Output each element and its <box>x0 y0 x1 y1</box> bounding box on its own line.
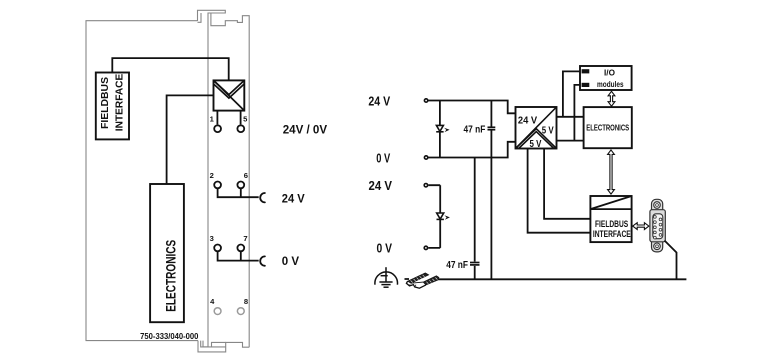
svg-text:modules: modules <box>597 80 624 89</box>
svg-text:I/O: I/O <box>604 69 616 78</box>
svg-text:ELECTRONICS: ELECTRONICS <box>162 240 178 312</box>
svg-text:47 nF: 47 nF <box>446 260 468 271</box>
svg-text:24 V: 24 V <box>368 94 390 108</box>
svg-text:24 V: 24 V <box>518 115 538 126</box>
svg-text:0 V: 0 V <box>376 151 390 165</box>
svg-text:3: 3 <box>210 234 214 243</box>
svg-text:ELECTRONICS: ELECTRONICS <box>586 124 629 133</box>
svg-text:5 V: 5 V <box>542 125 554 136</box>
svg-text:24 V: 24 V <box>369 179 393 193</box>
svg-text:2: 2 <box>210 171 214 180</box>
svg-text:FIELDBUS: FIELDBUS <box>100 77 111 129</box>
svg-text:6: 6 <box>244 171 248 180</box>
svg-text:750-333/040-000: 750-333/040-000 <box>140 332 199 341</box>
svg-text:0 V: 0 V <box>377 242 393 256</box>
svg-text:24 V: 24 V <box>282 191 306 205</box>
svg-text:INTERFACE: INTERFACE <box>593 229 631 240</box>
svg-text:24V / 0V: 24V / 0V <box>283 123 328 137</box>
svg-text:47 nF: 47 nF <box>464 124 486 135</box>
svg-text:0 V: 0 V <box>282 254 300 268</box>
svg-text:5 V: 5 V <box>530 139 542 150</box>
svg-text:7: 7 <box>243 234 247 243</box>
svg-text:8: 8 <box>244 297 248 306</box>
svg-text:INTERFACE: INTERFACE <box>114 74 125 132</box>
